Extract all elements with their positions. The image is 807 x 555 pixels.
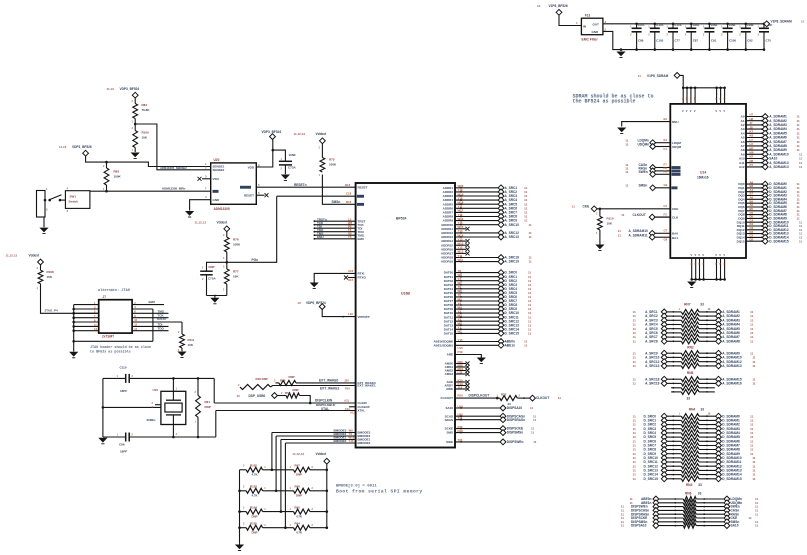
wire PGn from divider to U16B NMI: [226, 196, 277, 263]
svg-text:11,12,13: 11,12,13: [195, 221, 207, 225]
node VDP3_BF526 (left): [59, 145, 92, 156]
svg-text:VPPOTP: VPPOTP: [358, 315, 370, 319]
svg-text:RN7: RN7: [684, 303, 691, 307]
resistor network RN2 label: [687, 346, 694, 350]
svg-text:A_SRC19: A_SRC19: [505, 260, 520, 264]
U16B pin ADDR6 to node A_SRC6: [443, 205, 528, 212]
svg-text:Vddext: Vddext: [217, 221, 229, 225]
U16B pin ABE0 to node ABE0n: [433, 338, 527, 345]
svg-text:11: 11: [625, 170, 629, 174]
wire BMODE left ground rail: [239, 470, 241, 545]
svg-text:CLKOUT: CLKOUT: [633, 213, 646, 217]
svg-text:11,12,13: 11,12,13: [293, 452, 305, 456]
ground below C73A: [281, 175, 290, 181]
wire V1P8_SDRAM to U14 VDD pins: [680, 75, 726, 104]
U14 pin DQ1 to node D_SDRAM1: [738, 184, 800, 191]
U16B pin AMS3 no connect: [445, 370, 470, 376]
svg-text:11,12,13: 11,12,13: [294, 132, 306, 136]
resistor RN6.8 DISPSA10 to SA10: [621, 523, 759, 529]
resistor R104 DNP (BMODE row 3 left): [238, 505, 293, 518]
svg-text:DISPSA10: DISPSA10: [631, 524, 647, 528]
wire EXT_WAKE1 with resistor R44 DNP: [238, 377, 376, 390]
J7 pin10 TRSTn wire to R111: [132, 317, 182, 322]
resistor RN4.4 D_SRC3 to D_SDRAM3: [633, 426, 754, 432]
capacitor C96 18PF: [103, 433, 173, 454]
svg-text:SMS: SMS: [446, 431, 453, 435]
wire BMODE0 from U16B to pull resistor row: [285, 439, 370, 528]
node Vddext for BMODE pullups: [293, 452, 330, 528]
resistor RN7.7 A_SRC7 to A_SDRAM7: [633, 334, 754, 340]
svg-text:R57: R57: [285, 391, 291, 395]
wire crystal left pins: [103, 402, 161, 409]
svg-text:BMODE0: BMODE0: [358, 441, 371, 445]
capacitor C87 10NF: [685, 23, 700, 51]
U16B pin AMS0 no connect: [445, 360, 470, 366]
resistor RN2.3 A_SRC12 to A_SDRAM12: [633, 359, 756, 365]
U16B pin ADDR5 to node A_SRC5: [443, 201, 528, 208]
svg-text:CLKOUT: CLKOUT: [536, 396, 549, 400]
wire ADM13305_MRn from SW1 to U20: [90, 187, 211, 192]
U16B pin ADDR18 to node A_SRC18: [441, 254, 532, 261]
U16B pin DATA5 to node D_SRC5: [444, 289, 532, 296]
svg-text:EXT_WAKE0: EXT_WAKE0: [319, 379, 339, 383]
svg-text:RN2: RN2: [687, 346, 694, 350]
U16B pin SCAS to node DISPSCASn: [445, 413, 537, 420]
resistor RN5 unused element 4: [671, 389, 715, 394]
U16B pin DATA7 to node D_SRC7: [444, 297, 532, 304]
node Vddext with resistor R108 for JTAG: [6, 254, 55, 291]
svg-text:BA1: BA1: [672, 236, 678, 240]
U14 pin A8 to node A_SDRAM9: [741, 146, 800, 153]
U14 pin A5 to node A_SDRAM6: [741, 134, 800, 141]
capacitor C86 10UF: [630, 23, 645, 51]
node Vddext for R76 divider: [195, 221, 230, 232]
svg-text:A12: A12: [350, 411, 356, 415]
svg-text:C110: C110: [120, 365, 127, 369]
svg-text:R76: R76: [233, 238, 239, 242]
svg-text:Boot from serial SPI memory: Boot from serial SPI memory: [336, 489, 423, 495]
svg-text:11: 11: [528, 332, 532, 336]
U16B pin DATA2 to node D_SRC2: [444, 277, 532, 284]
svg-text:VDD: VDD: [248, 166, 255, 170]
svg-text:0.1UF: 0.1UF: [656, 23, 664, 27]
svg-text:C86: C86: [638, 39, 644, 43]
svg-text:10K: 10K: [607, 222, 613, 226]
svg-text:11: 11: [633, 382, 637, 386]
svg-text:4.7K: 4.7K: [296, 514, 303, 518]
svg-text:10NF: 10NF: [692, 23, 699, 27]
svg-text:V1P8_SDRAM: V1P8_SDRAM: [647, 74, 669, 78]
RN5 value 33 label: [687, 396, 691, 400]
node SMSn to U14 CS: [625, 183, 677, 191]
svg-text:11: 11: [533, 440, 537, 444]
svg-text:DNP: DNP: [252, 531, 258, 535]
svg-text:the BF524 as possible: the BF524 as possible: [573, 98, 636, 104]
svg-text:J7: J7: [103, 295, 107, 299]
node UDQMn to U14: [625, 142, 681, 150]
svg-text:A_SDRAM11: A_SDRAM11: [629, 233, 648, 237]
node A_SDRAM10 to U14 BA0: [618, 229, 679, 237]
U16B pin ADDR16 no connect: [441, 246, 470, 252]
resistor RN3.2 D_SRC9 to D_SDRAM9: [633, 451, 754, 457]
svg-text:TDO: TDO: [158, 327, 165, 331]
wire VDP3_BF526 to U20 SENSE1: [86, 156, 211, 167]
svg-text:11: 11: [621, 524, 625, 528]
svg-text:DNP: DNP: [289, 375, 295, 379]
svg-text:R94: R94: [295, 522, 301, 526]
svg-text:DISPCLKIN: DISPCLKIN: [315, 399, 333, 403]
svg-text:D_SRC15: D_SRC15: [644, 477, 659, 481]
U14 pin DQ2 to node D_SDRAM2: [738, 188, 800, 195]
svg-text:10K: 10K: [47, 275, 53, 279]
svg-text:4.7K: 4.7K: [252, 473, 259, 477]
svg-text:J20: J20: [344, 379, 349, 383]
svg-text:E2: E2: [664, 117, 668, 121]
svg-text:SRAS: SRAS: [445, 418, 453, 422]
svg-text:10NF: 10NF: [747, 23, 754, 27]
svg-text:A12: A12: [739, 165, 745, 169]
svg-text:GND: GND: [592, 30, 600, 34]
svg-text:R95: R95: [295, 505, 301, 509]
node CASn to U14: [625, 163, 680, 171]
U14 pin DQ15 to node D_SDRAM15: [737, 237, 803, 244]
svg-text:to BF52x as possible: to BF52x as possible: [90, 349, 131, 354]
U16B pin AWE no connect: [446, 385, 469, 391]
wire EMU stub to U16B pin EMU: [314, 235, 365, 241]
processor U16B BF524: [356, 183, 455, 448]
resistor RN5.1 A_SRC18 to A_SDRAM15: [633, 376, 756, 382]
wire divider tap to U20 SENSE2: [134, 123, 211, 170]
node VDP3_BF524 at U20: [262, 130, 282, 139]
wire TRSTn stub to U16B pin TRST: [314, 217, 366, 223]
power net V1P8_SDRAM node (top right): [764, 19, 805, 26]
U16B pin ADDR14 no connect: [441, 237, 470, 243]
ground below R77: [210, 298, 219, 304]
svg-text:D_SDRAM15: D_SDRAM15: [769, 239, 789, 243]
svg-text:ABE1/SDQM1: ABE1/SDQM1: [433, 343, 453, 347]
power net V1P8_BF526 node: [537, 4, 568, 15]
svg-text:C91: C91: [711, 39, 717, 43]
svg-text:BF524: BF524: [396, 217, 407, 221]
svg-text:RESETn: RESETn: [294, 183, 307, 187]
resistor RN7.8 A_SRC8 to A_SDRAM8: [633, 338, 754, 344]
svg-text:JTAG header should be as close: JTAG header should be as close: [90, 345, 151, 350]
resistor RN2.4 A_SRC13 to A_SDRAM13: [633, 363, 756, 369]
svg-text:4.7K: 4.7K: [296, 531, 303, 535]
svg-text:11: 11: [633, 339, 637, 343]
wire TCK stub to U16B pin TCK: [314, 221, 365, 227]
svg-text:R77: R77: [233, 270, 239, 274]
U14 pin A6 to node A_SDRAM7: [741, 138, 800, 145]
svg-text:ADM13305_SENSE2: ADM13305_SENSE2: [160, 166, 187, 170]
svg-text:alternate: JTAG: alternate: JTAG: [98, 288, 130, 293]
svg-text:16Mx16: 16Mx16: [697, 176, 709, 180]
svg-text:R75: R75: [329, 158, 335, 162]
svg-text:L19: L19: [348, 312, 353, 316]
svg-text:ADDR19: ADDR19: [441, 260, 453, 264]
U16B pin ADDR3 to node A_SRC3: [443, 192, 528, 199]
svg-text:C18: C18: [346, 192, 352, 196]
wire bottom rail of R77/C75A to ground: [207, 295, 227, 298]
resistor RN6.4 DISPSCASn to CASn: [621, 508, 759, 514]
svg-text:AWE: AWE: [446, 387, 453, 391]
note: BMODE setting: [336, 483, 423, 494]
wire filter GND to ground bus: [603, 31, 764, 49]
svg-text:R103: R103: [250, 485, 257, 489]
node VDP0_BF524 to U16B VPPOTP: [298, 301, 370, 319]
U14 pin DQ10 to node D_SDRAM10: [737, 218, 803, 225]
svg-text:A_SRC13: A_SRC13: [645, 364, 660, 368]
svg-text:F2: F2: [664, 212, 668, 216]
svg-text:11,13: 11,13: [107, 87, 115, 91]
svg-text:VDP3_BF526: VDP3_BF526: [72, 145, 92, 149]
svg-text:11: 11: [625, 184, 629, 188]
svg-text:R100: R100: [142, 131, 150, 135]
svg-text:11: 11: [799, 165, 803, 169]
svg-text:TRSTn: TRSTn: [157, 317, 167, 321]
J7 pin6 TMS wire: [132, 309, 168, 313]
resistor RN6.7 DISPSMSn to SMSn: [621, 519, 759, 525]
U16B pin ABE1 to node ABE1n: [433, 342, 527, 349]
wire JTAG_P1 from R108 to header: [41, 284, 99, 315]
U16B pin ADDR7 to node A_SRC7: [443, 209, 528, 216]
U16B pin AMS1 no connect: [445, 363, 470, 369]
U16B pin RTXO no connect: [344, 276, 367, 282]
J7 pin12 TDI wire: [132, 322, 168, 326]
U14 pin DQ5 to node D_SDRAM5: [738, 199, 800, 206]
capacitor C110 18PF: [103, 365, 173, 393]
svg-text:33: 33: [700, 303, 704, 307]
svg-text:C92: C92: [747, 39, 753, 43]
svg-text:BMODE0: BMODE0: [334, 439, 347, 443]
svg-text:ARE: ARE: [447, 353, 453, 357]
svg-text:C105: C105: [656, 39, 663, 43]
J7 left pins to ground rail: [72, 301, 153, 352]
svg-text:V1P8_SDRAM: V1P8_SDRAM: [771, 19, 793, 23]
U16B pin AMS2 no connect: [445, 367, 470, 373]
U16B pin DATA6 to node D_SRC6: [444, 293, 532, 300]
svg-text:F4: F4: [664, 147, 668, 151]
svg-text:12: 12: [237, 394, 241, 398]
resistor network RN3 33 label: [686, 483, 702, 487]
svg-text:RN3: RN3: [686, 483, 693, 487]
capacitor C91 10NF: [703, 23, 718, 51]
svg-text:DISPSWEn: DISPSWEn: [507, 440, 524, 444]
svg-text:11: 11: [752, 382, 756, 386]
svg-text:EMU: EMU: [149, 300, 156, 304]
ground below R110: [595, 245, 604, 251]
svg-text:TMS: TMS: [158, 309, 164, 313]
resistor RN3.3 D_SRC10 to D_SDRAM10: [633, 455, 756, 461]
svg-text:R84: R84: [142, 103, 148, 107]
resistor network RN5 label: [687, 371, 694, 375]
svg-text:DSP_USB0: DSP_USB0: [249, 394, 266, 398]
J7 pin8 TCK wire: [132, 314, 168, 318]
svg-text:100K: 100K: [233, 243, 241, 247]
U14 pin DQ7 to node D_SDRAM7: [738, 207, 800, 214]
U16B pin CLKBUF stub: [316, 403, 370, 411]
resistor R77 10K: [223, 262, 239, 295]
svg-text:SMSn: SMSn: [332, 200, 341, 204]
svg-text:JTAG_P4: JTAG_P4: [45, 308, 58, 312]
svg-text:F3: F3: [664, 204, 668, 208]
svg-text:Vddext: Vddext: [316, 452, 328, 456]
svg-text:DNP: DNP: [296, 494, 302, 498]
svg-text:OUT: OUT: [593, 23, 600, 27]
resistor R94 4.7K (BMODE row 4 right): [290, 522, 329, 535]
U14 pin A9 to node A_SDRAM10: [741, 151, 803, 158]
svg-text:13: 13: [537, 4, 541, 8]
svg-text:11: 11: [533, 418, 537, 422]
svg-text:2x7SMT: 2x7SMT: [102, 335, 114, 339]
svg-text:11: 11: [625, 142, 629, 146]
U14 pin A12 to node A_SDRAM14: [739, 163, 803, 170]
svg-text:11: 11: [801, 19, 805, 23]
resistor RN6.2 ABE1n to UDQMn: [630, 500, 759, 506]
svg-text:U14: U14: [700, 171, 706, 175]
U16B pin SRAS to node DISPSRASn: [445, 416, 537, 423]
U14 pin DQ3 to node D_SDRAM3: [738, 192, 800, 199]
svg-text:DISPSRASn: DISPSRASn: [507, 418, 525, 422]
svg-text:25Mhz: 25Mhz: [147, 418, 157, 422]
svg-text:10K: 10K: [188, 343, 194, 347]
resistor network RN7 33 label: [679, 303, 711, 311]
svg-text:CLK: CLK: [672, 215, 679, 219]
wire BMODE2 from U16B to pull resistor row: [276, 432, 371, 491]
svg-text:F13: F13: [585, 14, 591, 18]
wire TDI stub to U16B pin TDI: [314, 224, 363, 230]
svg-text:11: 11: [799, 239, 803, 243]
node DSP_USB0 with resistor R57 DNP to CLKIN: [237, 388, 312, 404]
capacitor C77 0.1UF: [667, 23, 683, 51]
U14 pin DQ8 to node D_SDRAM8: [738, 211, 800, 218]
wire EXT_WAKE0 with resistor R56 DNP: [274, 375, 376, 386]
svg-text:33: 33: [698, 491, 702, 495]
svg-text:11: 11: [750, 339, 754, 343]
U16B pin ADDR4 to node A_SRC4: [443, 196, 528, 203]
resistor R100 10K: [132, 124, 150, 152]
svg-text:18PF: 18PF: [120, 389, 127, 393]
capacitor C106 10NF: [721, 23, 736, 51]
svg-text:11: 11: [529, 260, 533, 264]
capacitor C92 10NF: [739, 23, 754, 51]
resistor R95 4.7K (BMODE row 3 right): [290, 505, 329, 518]
U14 VSS pins to ground: [690, 254, 725, 281]
wire crystal top node: [172, 377, 214, 380]
svg-text:A_SDRAM16: A_SDRAM16: [722, 382, 742, 386]
svg-text:RTXO: RTXO: [358, 276, 367, 280]
svg-text:11: 11: [529, 223, 533, 227]
svg-text:A_SRC19: A_SRC19: [645, 382, 660, 386]
svg-text:EXT_WAKE1: EXT_WAKE1: [320, 386, 340, 390]
resistor RN2.2 A_SRC10 to A_SDRAM10: [633, 355, 756, 361]
resistor RN7.3 A_SRC3 to A_SDRAM3: [633, 317, 754, 323]
svg-text:33: 33: [701, 408, 705, 412]
svg-text:UDQMn: UDQMn: [638, 142, 650, 146]
capacitor C73A 10NF: [273, 150, 297, 174]
svg-text:Y5: Y5: [348, 235, 352, 239]
U14 pin A11 to node A_SDRAM13: [739, 159, 802, 166]
U16B pin SA10 to node DISPSA10: [445, 404, 533, 411]
svg-text:RN4: RN4: [689, 408, 696, 412]
svg-text:G8: G8: [664, 237, 668, 241]
resistor RN7.5 A_SRC5 to A_SDRAM5: [633, 326, 754, 332]
node A_SDRAM11 to U14 BA1: [618, 233, 679, 241]
U14 pin A7 to node A_SDRAM8: [741, 142, 800, 149]
svg-text:C77: C77: [675, 39, 681, 43]
U16B pin AOE no connect: [446, 378, 469, 384]
svg-text:R83: R83: [114, 170, 120, 174]
J7 pin4 wire to ground loop: [132, 305, 153, 309]
resistor RN5.2 A_SRC19 to A_SDRAM16: [633, 381, 756, 387]
svg-text:B18: B18: [345, 183, 351, 187]
U16B pin DATA11 to node D_SRC11: [444, 314, 532, 321]
svg-text:DNP: DNP: [252, 514, 258, 518]
svg-text:EMU: EMU: [317, 235, 324, 239]
U14 pin DQ4 to node D_SDRAM4: [738, 196, 800, 203]
wire filter OUT bus: [603, 23, 767, 25]
capacitor C75 10NF: [758, 23, 773, 51]
resistor RN2.1 A_SRC9 to A_SDRAM9: [633, 350, 754, 356]
svg-text:DNP: DNP: [205, 405, 211, 409]
svg-text:XTAL: XTAL: [321, 407, 329, 411]
resistor network RN6 33 label: [685, 491, 702, 495]
U14 pin DQ11 to node D_SDRAM11: [737, 222, 803, 229]
svg-text:RESET: RESET: [358, 185, 368, 189]
ground at U14 DNU: [617, 128, 626, 134]
svg-text:U20: U20: [214, 158, 220, 162]
svg-text:R102: R102: [250, 464, 257, 468]
svg-text:GND: GND: [213, 198, 221, 202]
U16B pin DATA4 to node D_SRC4: [444, 285, 532, 292]
wire left rail of crystal: [102, 378, 105, 437]
svg-text:AMS3: AMS3: [445, 372, 454, 376]
resistor RN4.8 D_SRC7 to D_SDRAM7: [633, 443, 754, 449]
svg-text:SENSE2: SENSE2: [213, 168, 225, 172]
ground at RTXI: [310, 283, 319, 289]
ground below R100: [131, 153, 140, 159]
resistor R97 DNP (BMODE row 1 right): [290, 464, 329, 477]
U14 VDD pin numbers: [682, 98, 725, 114]
svg-text:CKE: CKE: [583, 205, 590, 209]
svg-text:R97: R97: [295, 464, 301, 468]
svg-text:11: 11: [749, 516, 753, 520]
wire PG to U16B NMI: [277, 192, 364, 198]
svg-text:A_SDRAM13: A_SDRAM13: [722, 364, 742, 368]
svg-text:IN: IN: [583, 24, 586, 28]
node SWEn to U14: [625, 170, 680, 178]
svg-text:0.1UF: 0.1UF: [674, 23, 682, 27]
resistor RN3.4 D_SRC11 to D_SDRAM11: [633, 459, 756, 465]
svg-text:C106: C106: [729, 39, 736, 43]
svg-text:DISPSMSn: DISPSMSn: [507, 431, 523, 435]
svg-text:CLKOUT: CLKOUT: [441, 396, 454, 400]
U16B pin ARDY no connect: [444, 382, 469, 388]
svg-text:33: 33: [698, 483, 702, 487]
svg-text:11: 11: [558, 396, 562, 400]
U16B pin DATA9 to node D_SRC9: [444, 305, 532, 312]
svg-text:11: 11: [633, 364, 637, 368]
resistor R61 DNP across crystal: [195, 378, 211, 438]
svg-text:DNP: DNP: [296, 473, 302, 477]
resistor network RN4 33 label: [679, 408, 711, 416]
wire U20 VDD to VDP3_BF524: [256, 139, 274, 167]
svg-text:11: 11: [755, 524, 759, 528]
svg-text:11: 11: [524, 219, 528, 223]
svg-text:SWEn: SWEn: [639, 170, 648, 174]
resistor RN3.6 D_SRC13 to D_SDRAM13: [633, 468, 756, 474]
resistor RN6.5 DISPSRASn to RASn: [621, 511, 759, 517]
